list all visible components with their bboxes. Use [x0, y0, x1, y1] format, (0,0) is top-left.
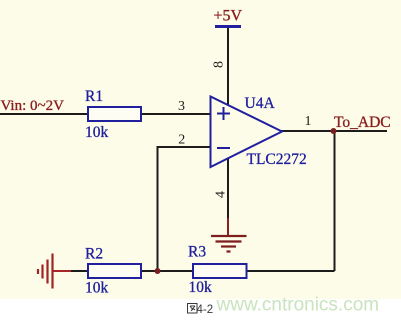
svg-text:3: 3 [178, 99, 185, 114]
svg-text:4-2: 4-2 [197, 304, 214, 316]
svg-text:U4A: U4A [245, 95, 276, 112]
svg-text:1: 1 [305, 114, 312, 129]
svg-text:10k: 10k [189, 279, 213, 296]
svg-text:8: 8 [212, 61, 227, 68]
svg-text:TLC2272: TLC2272 [247, 151, 307, 168]
svg-text:R1: R1 [85, 88, 103, 105]
svg-text:10k: 10k [85, 124, 109, 141]
svg-text:+5V: +5V [214, 8, 243, 25]
svg-text:To_ADC: To_ADC [334, 114, 391, 131]
svg-text:4: 4 [214, 191, 229, 198]
svg-text:R3: R3 [188, 244, 206, 261]
svg-text:www.cntronics.com: www.cntronics.com [216, 295, 380, 316]
svg-text:Vin: 0~2V: Vin: 0~2V [1, 98, 65, 114]
svg-text:2: 2 [178, 133, 185, 148]
svg-text:10k: 10k [85, 280, 109, 297]
svg-text:R2: R2 [85, 246, 103, 263]
